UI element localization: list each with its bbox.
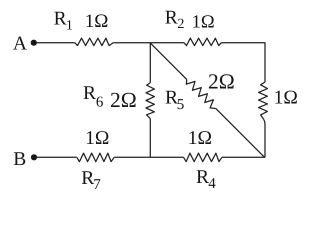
label R6 bbox=[83, 83, 104, 111]
svg-text:7: 7 bbox=[93, 177, 101, 193]
svg-text:2: 2 bbox=[177, 17, 184, 32]
svg-text:A: A bbox=[13, 34, 27, 55]
wire R6 to bottom junction bbox=[149, 119, 151, 158]
wire R7 to bottom junction to R4 bbox=[114, 156, 183, 158]
resistor R1 bbox=[75, 38, 114, 45]
svg-text:2Ω: 2Ω bbox=[208, 70, 235, 94]
wire R2 to top-right corner down to right resistor bbox=[221, 43, 265, 82]
svg-text:1Ω: 1Ω bbox=[188, 128, 212, 149]
label R2 bbox=[165, 7, 185, 31]
svg-text:5: 5 bbox=[177, 97, 185, 113]
wire top junction to R6 bbox=[149, 43, 151, 83]
svg-text:R: R bbox=[83, 83, 96, 104]
wire top junction to R5 bbox=[150, 43, 187, 80]
node B terminal dot bbox=[31, 154, 37, 160]
svg-text:1: 1 bbox=[66, 19, 73, 34]
svg-text:2Ω: 2Ω bbox=[110, 88, 137, 112]
wire R5 to bottom-right junction bbox=[216, 108, 265, 157]
wire R4 to bottom-right junction bbox=[222, 156, 265, 158]
wire node A to R1 bbox=[37, 42, 75, 44]
label R1 bbox=[54, 9, 73, 34]
wire node B to R7 bbox=[37, 156, 77, 158]
svg-text:R: R bbox=[54, 9, 67, 30]
svg-text:1Ω: 1Ω bbox=[85, 128, 109, 149]
label R5 bbox=[165, 87, 184, 113]
svg-text:1Ω: 1Ω bbox=[85, 11, 109, 32]
svg-text:R: R bbox=[165, 7, 178, 28]
svg-text:1Ω: 1Ω bbox=[274, 87, 298, 108]
svg-text:B: B bbox=[13, 149, 26, 170]
svg-text:1Ω: 1Ω bbox=[192, 13, 215, 33]
wire right resistor to bottom-right junction bbox=[264, 120, 265, 158]
label R4 bbox=[196, 167, 216, 192]
resistor R2 bbox=[184, 38, 221, 45]
svg-text:4: 4 bbox=[208, 176, 216, 192]
resistor R7 bbox=[77, 153, 115, 161]
resistor R6 (middle vertical) bbox=[146, 83, 154, 119]
node A terminal dot bbox=[31, 40, 37, 46]
resistor R3 (right vertical) bbox=[259, 82, 268, 120]
resistor R4 bbox=[184, 153, 222, 161]
svg-text:6: 6 bbox=[96, 94, 104, 110]
label R7 bbox=[81, 168, 101, 193]
svg-text:R: R bbox=[196, 167, 209, 188]
resistor R5 (diagonal) bbox=[184, 76, 219, 111]
wire R1 to top junction to R2 bbox=[113, 42, 184, 44]
